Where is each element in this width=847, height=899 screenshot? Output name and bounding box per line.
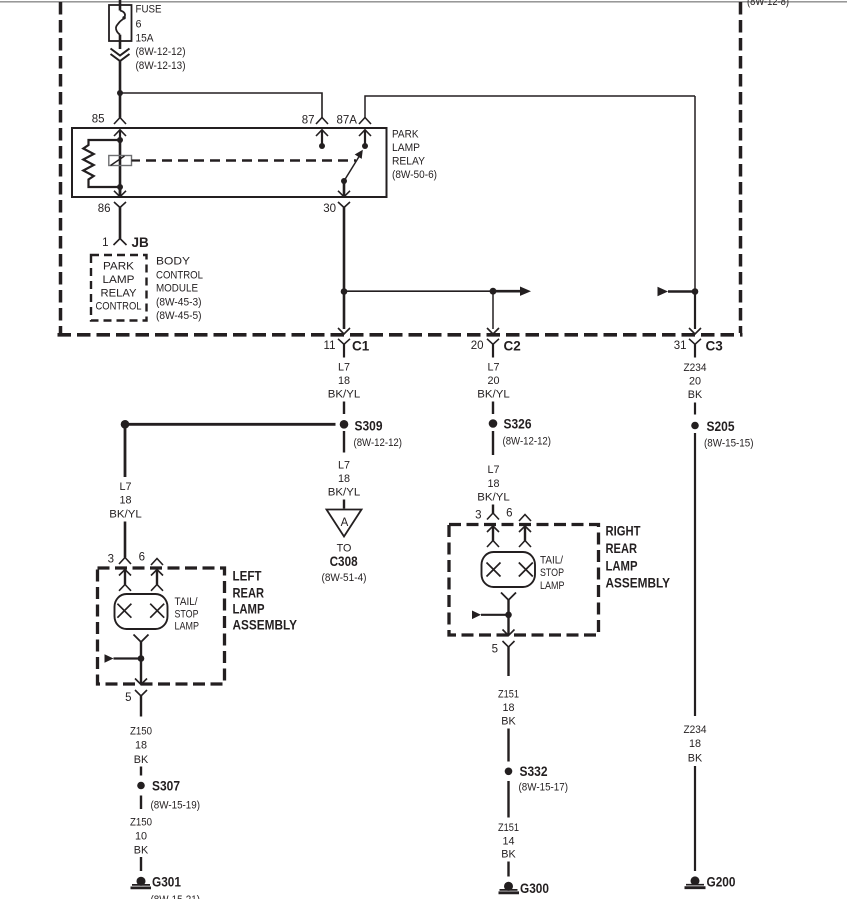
wire <box>694 403 696 415</box>
wire fuse to chevrons <box>119 35 122 49</box>
coil stub <box>132 159 141 161</box>
svg-text:18: 18 <box>487 478 499 490</box>
svg-text:BK/YL: BK/YL <box>328 389 361 401</box>
wire chevrons to pin 85 <box>119 61 122 118</box>
pin 30 female fork <box>338 202 350 208</box>
svg-text:(8W-12-12): (8W-12-12) <box>136 46 186 58</box>
off-page arrow feed (left lamp) <box>105 654 114 663</box>
svg-text:20: 20 <box>471 340 484 352</box>
connector C3 female fork <box>689 339 701 345</box>
fuse element curve <box>116 11 125 35</box>
svg-text:L7: L7 <box>119 481 131 493</box>
svg-text:Z150: Z150 <box>130 726 152 738</box>
wire <box>343 402 345 415</box>
svg-text:14: 14 <box>502 836 514 848</box>
frame top edge <box>0 1 847 3</box>
svg-text:STOP: STOP <box>540 567 564 579</box>
svg-text:LAMP: LAMP <box>175 621 200 633</box>
connector C2 female fork <box>487 339 499 345</box>
wire C2 drop down <box>492 291 494 329</box>
wire splice to left branch <box>125 423 336 426</box>
svg-text:L7: L7 <box>338 460 350 472</box>
svg-text:ASSEMBLY: ASSEMBLY <box>233 617 298 633</box>
svg-text:Z234: Z234 <box>684 724 707 736</box>
wire <box>492 402 494 415</box>
connector C1 female fork <box>338 339 350 345</box>
svg-text:(8W-15-17): (8W-15-17) <box>519 782 569 794</box>
splice S309 <box>340 420 349 429</box>
pin 3 male arrow and fork <box>119 570 131 576</box>
relay coil box <box>109 156 132 166</box>
pin 5 male arrow down <box>135 679 147 685</box>
wire below S326 <box>492 431 494 455</box>
fuse F6 15A box <box>109 5 132 41</box>
svg-text:BK/YL: BK/YL <box>477 492 510 504</box>
svg-text:Z151: Z151 <box>498 689 519 701</box>
svg-text:TO: TO <box>337 543 352 555</box>
svg-text:87: 87 <box>302 115 315 127</box>
off-page double chevron <box>111 49 130 56</box>
svg-text:(8W-15-21): (8W-15-21) <box>151 894 201 899</box>
svg-text:20: 20 <box>487 375 499 387</box>
wire <box>694 766 696 871</box>
svg-text:BK: BK <box>134 845 149 857</box>
svg-text:6: 6 <box>506 508 512 520</box>
pin 87 male arrow and stem <box>316 130 328 136</box>
svg-text:(8W-12-12): (8W-12-12) <box>354 437 403 449</box>
svg-text:86: 86 <box>98 203 111 215</box>
pin 6 male arrow and fork <box>151 570 163 576</box>
node splice to C2 feed <box>341 288 348 295</box>
svg-text:(8W-12-12): (8W-12-12) <box>503 436 552 448</box>
svg-text:G301: G301 <box>152 875 181 890</box>
wire <box>507 862 509 877</box>
pin 87A male arrow and stem <box>359 130 371 136</box>
node fuse junction <box>117 90 123 96</box>
svg-text:87A: 87A <box>337 115 358 127</box>
svg-text:G200: G200 <box>707 875 736 890</box>
node coil bottom <box>117 184 123 190</box>
switch arm <box>344 155 360 181</box>
wire <box>492 505 494 514</box>
splice S307 <box>137 782 145 790</box>
BCM park lamp relay control dashed box <box>91 255 147 321</box>
off-page triangle A <box>327 510 362 537</box>
left rear lamp assembly dashed box <box>98 568 225 684</box>
svg-text:BK/YL: BK/YL <box>477 389 510 401</box>
svg-text:LEFT: LEFT <box>233 568 262 584</box>
pin 5 female fork <box>503 641 515 647</box>
svg-text:C1: C1 <box>352 339 370 354</box>
wire <box>124 522 127 558</box>
right rear lamp assembly dashed box <box>449 525 599 636</box>
node pin 87 contact <box>319 143 325 149</box>
svg-text:LAMP: LAMP <box>103 274 135 286</box>
svg-text:REAR: REAR <box>233 584 265 600</box>
svg-text:(8W-12-13): (8W-12-13) <box>136 60 186 72</box>
wire junction to pin 87 <box>120 93 322 118</box>
body boundary dashed bottom edge <box>58 333 743 337</box>
svg-text:LAMP: LAMP <box>606 558 638 574</box>
svg-text:S332: S332 <box>520 764 548 779</box>
svg-text:15A: 15A <box>136 33 155 45</box>
svg-text:A: A <box>341 517 349 529</box>
svg-text:LAMP: LAMP <box>392 142 420 154</box>
node left branch <box>121 420 130 429</box>
body boundary dashed right edge <box>739 2 743 333</box>
right lamp pin 3 female chevron <box>487 513 499 520</box>
right lamp pin 6 female chevron <box>519 515 531 522</box>
wire stub to off-page arrow <box>493 290 521 293</box>
svg-text:10: 10 <box>135 831 147 843</box>
wire <box>140 857 142 871</box>
svg-text:S307: S307 <box>152 779 180 794</box>
svg-text:18: 18 <box>135 740 147 752</box>
svg-text:BODY: BODY <box>156 256 190 268</box>
svg-text:30: 30 <box>323 203 336 215</box>
svg-text:TAIL/: TAIL/ <box>540 555 563 567</box>
svg-text:JB: JB <box>132 235 150 250</box>
ground G301 <box>137 877 146 886</box>
svg-text:S309: S309 <box>355 419 383 434</box>
svg-text:6: 6 <box>139 552 145 564</box>
C2 male arrow down <box>487 328 499 334</box>
svg-text:MODULE: MODULE <box>156 283 198 295</box>
svg-text:L7: L7 <box>487 464 499 476</box>
wire to pin 5 <box>507 615 509 635</box>
svg-text:CONTROL: CONTROL <box>96 301 142 313</box>
pin 86 female fork <box>114 202 126 208</box>
wire <box>343 500 345 509</box>
svg-text:BK: BK <box>134 754 149 766</box>
svg-text:3: 3 <box>108 554 114 566</box>
svg-text:BK: BK <box>688 389 703 401</box>
node C3 drop <box>692 288 699 295</box>
pin 87 female chevron <box>316 118 328 125</box>
wire pin 86 to BCM pin 1 <box>119 208 122 239</box>
pin 5 male arrow down <box>503 630 515 636</box>
node lamp junction <box>505 612 512 619</box>
pin 3 male arrow and fork <box>487 526 499 532</box>
svg-text:RIGHT: RIGHT <box>606 523 641 539</box>
wire into fuse <box>119 0 122 11</box>
svg-text:BK: BK <box>501 716 516 728</box>
lamp output fork <box>134 635 149 643</box>
node switch pivot <box>341 178 347 184</box>
svg-text:RELAY: RELAY <box>101 287 137 299</box>
svg-text:S326: S326 <box>504 417 532 432</box>
svg-text:CONTROL: CONTROL <box>156 269 203 281</box>
svg-text:18: 18 <box>338 375 350 387</box>
svg-text:6: 6 <box>136 18 142 30</box>
svg-text:Z150: Z150 <box>130 817 152 829</box>
pin 30 male arrow down <box>343 181 346 197</box>
wire <box>507 781 509 818</box>
svg-text:18: 18 <box>502 702 514 714</box>
svg-text:(8W-45-3): (8W-45-3) <box>156 296 202 308</box>
svg-text:PARK: PARK <box>392 129 419 141</box>
wire S205 down <box>694 433 696 716</box>
svg-text:85: 85 <box>92 114 105 126</box>
splice S332 <box>505 768 513 776</box>
svg-text:18: 18 <box>689 738 701 750</box>
svg-text:31: 31 <box>674 340 687 352</box>
splice S326 <box>489 419 498 428</box>
pin 86 male arrow down <box>119 187 122 197</box>
svg-text:BK/YL: BK/YL <box>328 487 361 499</box>
wire through coil <box>119 140 122 197</box>
svg-text:BK: BK <box>688 753 703 765</box>
svg-text:Z151: Z151 <box>498 822 519 834</box>
svg-text:(8W-15-19): (8W-15-19) <box>151 800 201 812</box>
svg-text:C308: C308 <box>330 554 358 569</box>
tail/stop lamp bulb (left) <box>115 594 168 629</box>
left lamp pin 6 female chevron <box>151 559 163 566</box>
svg-text:C2: C2 <box>504 339 521 354</box>
relay K1 box <box>72 128 387 197</box>
svg-text:(8W-50-6): (8W-50-6) <box>392 169 437 181</box>
node lamp junction <box>138 655 145 662</box>
svg-text:BK: BK <box>501 849 516 861</box>
C1 male arrow down <box>338 328 350 334</box>
svg-text:ASSEMBLY: ASSEMBLY <box>606 575 671 591</box>
off-page arrow feed (right lamp) <box>472 611 481 620</box>
body boundary dashed left edge <box>59 2 63 333</box>
svg-text:(8W-12-8): (8W-12-8) <box>747 0 789 8</box>
svg-text:(8W-45-5): (8W-45-5) <box>156 310 202 322</box>
off-page arrow right <box>520 287 531 296</box>
svg-text:PARK: PARK <box>103 261 135 273</box>
splice S205 <box>691 422 699 430</box>
wire left branch down <box>124 424 127 477</box>
svg-text:18: 18 <box>119 495 131 507</box>
svg-text:FUSE: FUSE <box>136 4 162 16</box>
svg-text:RELAY: RELAY <box>392 156 425 168</box>
svg-text:(8W-51-4): (8W-51-4) <box>322 572 367 584</box>
lamp output fork <box>501 593 516 601</box>
node C2 drop <box>490 288 497 295</box>
wire pin 30 down to C1 <box>343 208 346 330</box>
off-page arrow feeding C3 <box>658 287 669 297</box>
svg-text:L7: L7 <box>487 362 499 374</box>
wire junction to C2 drop <box>344 290 493 292</box>
pin 87A female chevron <box>359 118 371 125</box>
wire to pin 5 <box>140 659 142 685</box>
tail/stop lamp bulb (right) <box>482 552 536 587</box>
svg-text:3: 3 <box>475 510 481 522</box>
svg-text:5: 5 <box>125 692 131 704</box>
pin 1 female chevron <box>114 239 127 246</box>
svg-text:G300: G300 <box>520 881 549 896</box>
svg-text:LAMP: LAMP <box>540 580 565 592</box>
svg-text:STOP: STOP <box>175 608 199 620</box>
node pin 87A contact <box>362 143 368 149</box>
svg-text:1: 1 <box>102 237 108 249</box>
wire <box>140 767 142 776</box>
svg-text:REAR: REAR <box>606 540 638 556</box>
svg-text:TAIL/: TAIL/ <box>175 596 198 608</box>
svg-text:BK/YL: BK/YL <box>109 509 142 521</box>
left lamp pin 3 female chevron <box>119 558 131 565</box>
svg-text:20: 20 <box>689 376 701 388</box>
svg-text:5: 5 <box>492 644 498 656</box>
ground G200 <box>691 876 700 885</box>
wire <box>507 729 509 762</box>
pin 85 female chevron <box>114 118 126 125</box>
pin 85 male arrow <box>114 130 126 136</box>
svg-text:18: 18 <box>338 473 350 485</box>
svg-text:11: 11 <box>324 340 336 352</box>
ground G300 <box>504 882 513 891</box>
wire C3 drop down <box>694 96 696 292</box>
wire 87A feed to C3 drop <box>365 96 695 118</box>
svg-text:(8W-15-15): (8W-15-15) <box>704 438 754 450</box>
svg-text:C3: C3 <box>706 339 724 354</box>
svg-text:S205: S205 <box>707 419 735 434</box>
pin 5 female fork <box>135 690 147 696</box>
wire below S309 <box>343 431 345 453</box>
node coil top <box>117 137 123 143</box>
C3 male arrow down <box>689 328 701 334</box>
svg-text:Z234: Z234 <box>684 362 707 374</box>
resistor (coil suppression) <box>83 140 120 187</box>
svg-text:L7: L7 <box>338 362 350 374</box>
svg-text:LAMP: LAMP <box>233 601 265 617</box>
wire <box>140 796 142 810</box>
pin 6 male arrow and fork <box>519 526 531 532</box>
dashed control link <box>146 159 356 161</box>
